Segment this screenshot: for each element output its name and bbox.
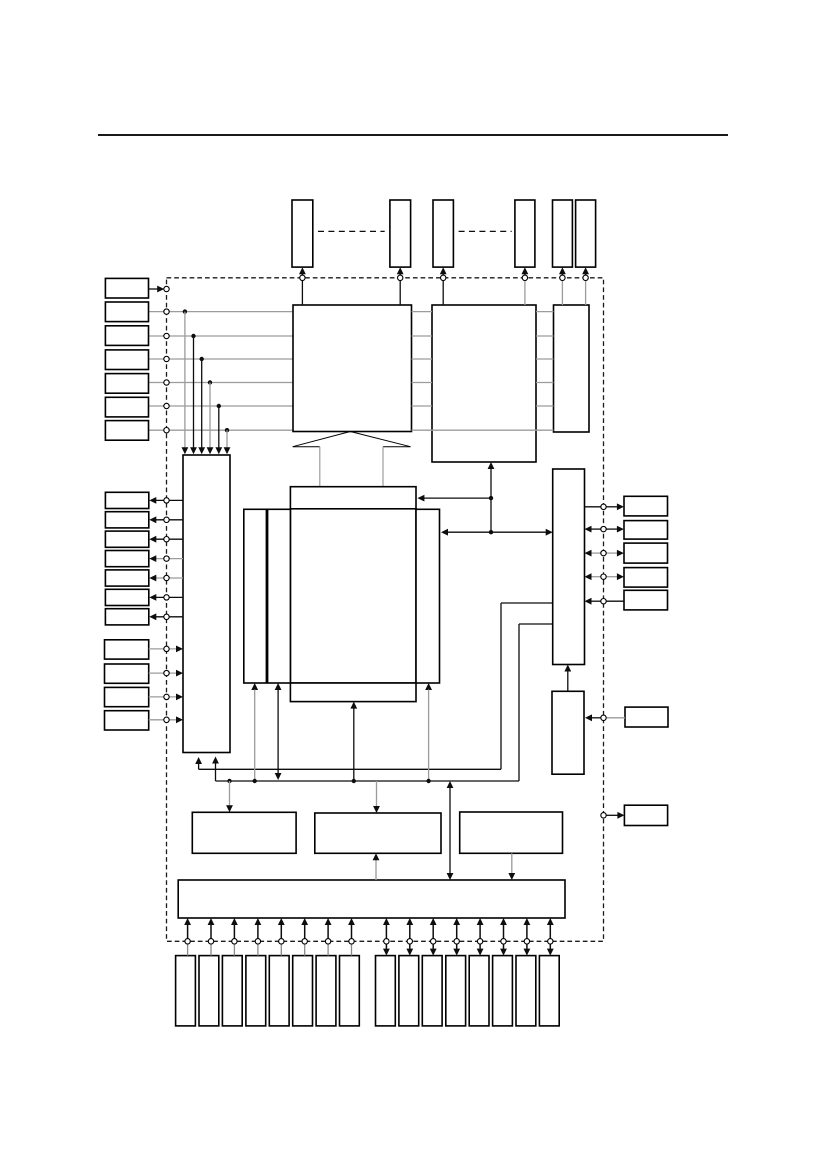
node bottom port left 8 [349, 939, 354, 944]
node bottom port left 5 [279, 939, 284, 944]
junction dot bus L6 [225, 428, 229, 432]
wire M7 arrow [156, 616, 183, 618]
node left port 6 [164, 403, 169, 408]
block B left sidebar [244, 509, 291, 683]
wire N2 arrow [149, 672, 177, 674]
hollow arrow left shaft [319, 447, 321, 487]
wire bus segment A-C row 5 [412, 405, 433, 407]
block N3 [105, 687, 149, 706]
wire bottom pin right 3 [432, 924, 434, 939]
wire bottom pin left 3 [233, 924, 235, 939]
wire P3 drop into block [442, 281, 444, 306]
hollow arrow right shaft [382, 447, 384, 487]
block B header [290, 487, 416, 509]
junction dot 491-532 [489, 530, 493, 534]
block L2 [105, 326, 148, 346]
wire N1 arrow [149, 648, 177, 650]
node right port 4 [601, 574, 606, 579]
hollow arrow left wing [293, 446, 320, 448]
wire bottom pin left 4 [257, 924, 259, 939]
block G1 [315, 813, 441, 853]
block P3 top pin box [433, 200, 453, 267]
wire bottom pin right 5 [479, 924, 481, 939]
wire M3 arrow [156, 538, 183, 540]
node bottom port right 5 [477, 939, 482, 944]
wire R7 row [606, 814, 618, 816]
block M4 [105, 551, 148, 567]
node left port 16 [164, 670, 169, 675]
node bottom port right 1 [384, 939, 389, 944]
wire P3 arrow from border [442, 273, 444, 275]
block L4 [105, 374, 148, 394]
wire G2 to bus [511, 853, 513, 873]
block R1 [624, 496, 668, 516]
block N4 [105, 711, 149, 730]
block bottom pin right 5 [469, 956, 489, 1026]
wire P6 arrow from border [585, 273, 587, 275]
wire L0 to border [149, 288, 159, 290]
block G0 [192, 812, 296, 853]
wire bus line L2 [149, 335, 294, 337]
wire P6 drop into block [585, 281, 587, 306]
wire bottom pin left 7 [327, 924, 329, 939]
junction dot 254-781 [253, 779, 257, 783]
node top port 3 [441, 275, 446, 280]
node bottom port left 6 [302, 939, 307, 944]
wire sidebar left A [251, 683, 258, 690]
junction dot bus L4 [208, 380, 212, 384]
node left port 8 [164, 498, 169, 503]
junction dot bus L5 [217, 404, 221, 408]
hollow arrow left diagonal [293, 432, 351, 447]
node left port 10 [164, 537, 169, 542]
block bottom pin right 8 [539, 956, 559, 1026]
block P4 top pin box [515, 200, 535, 267]
junction dot 353-781 [352, 779, 356, 783]
junction dot bus L3 [200, 357, 204, 361]
block M3 [105, 531, 148, 547]
node right port 5 [601, 599, 606, 604]
block R2 [624, 521, 668, 540]
wire bottom pin right 2 [409, 924, 411, 939]
node top port 4 [522, 275, 527, 280]
wire drop L2 to tall box [193, 336, 195, 449]
wire R6 row [585, 714, 592, 721]
block bottom pin left 1 [176, 956, 196, 1026]
node right port 7 [601, 813, 606, 818]
wire drop L5 to tall box [218, 406, 220, 449]
block B footer [290, 683, 416, 702]
node left port 1 [164, 286, 169, 291]
wire riser x491 [490, 469, 492, 533]
block B right sidebar [416, 509, 440, 683]
header rule [98, 134, 728, 136]
block L6 [105, 421, 148, 441]
junction dot 428-781 [426, 779, 430, 783]
block P6 top pin box [576, 200, 596, 267]
node bottom port right 2 [407, 939, 412, 944]
node left port 18 [164, 717, 169, 722]
wire G1 bottom arrow [375, 860, 377, 880]
wire bus segment C-D row 3 [536, 358, 554, 360]
wire R4 row [585, 573, 592, 580]
block N2 [105, 664, 149, 683]
node left port 12 [164, 575, 169, 580]
wire drop L3 to tall box [201, 359, 203, 449]
node bottom port left 1 [185, 939, 190, 944]
wire bus segment row 6 through C [412, 429, 554, 431]
wire bottom pin left 5 [280, 924, 282, 939]
node bottom port right 6 [501, 939, 506, 944]
block M6 [105, 589, 148, 605]
block B sidebar divider [266, 509, 269, 683]
node bottom port left 2 [208, 939, 213, 944]
block G2 [460, 812, 563, 853]
wire sidebar right riser [425, 683, 432, 690]
block T tall register box [183, 455, 230, 753]
node bottom port right 3 [431, 939, 436, 944]
node top port 5 [560, 275, 565, 280]
block BUS [178, 880, 565, 918]
wire P1 drop into block [301, 281, 303, 306]
junction dot bus L2 [191, 334, 195, 338]
node right port 1 [601, 504, 606, 509]
wire P1 arrow from border [301, 273, 303, 275]
node bottom port right 4 [454, 939, 459, 944]
wire bottom pin right 1 [385, 924, 387, 939]
node left port 5 [164, 380, 169, 385]
block bottom pin right 7 [516, 956, 536, 1026]
block R7 [624, 805, 667, 825]
block E [553, 469, 585, 665]
wire bottom pin left 2 [210, 924, 212, 939]
wire bus segment A-C row 1 [412, 311, 433, 313]
wire sidebar left B double arrow [275, 683, 282, 690]
wire W1 elbow [501, 602, 553, 604]
wire P2 arrow from border [399, 273, 401, 275]
wire bottom pin left 8 [351, 924, 353, 939]
wire M1 arrow [156, 499, 183, 501]
block P5 top pin box [553, 200, 573, 267]
wire R3 row [585, 550, 592, 557]
wire P5 drop into block [561, 281, 563, 306]
block bottom pin left 4 [246, 956, 266, 1026]
block N1 [105, 640, 149, 659]
node right port 2 [601, 526, 606, 531]
wire bottom pin left 1 [187, 924, 189, 939]
wire header arrow [424, 497, 491, 499]
node top port 1 [300, 275, 305, 280]
block C [432, 305, 536, 462]
node left port 7 [164, 428, 169, 433]
block M1 [105, 492, 148, 508]
wire footer riser [350, 702, 357, 709]
wire bus line L3 [149, 358, 294, 360]
wire drop L1 to tall box [184, 312, 186, 449]
junction dot 229-781 [227, 779, 231, 783]
wire R1 row [585, 506, 601, 508]
block bottom pin right 1 [376, 956, 396, 1026]
wire bus segment C-D row 5 [536, 405, 554, 407]
wire feed G0 [229, 781, 231, 806]
block P1 top pin box [292, 200, 313, 267]
wire bottom pin right 6 [503, 924, 505, 939]
block bottom pin left 7 [316, 956, 336, 1026]
block bottom pin left 6 [293, 956, 313, 1026]
block bottom pin left 8 [340, 956, 360, 1026]
wire double arrow x450 [449, 788, 451, 874]
wire bus segment C-D row 2 [536, 335, 554, 337]
wire M5 arrow [156, 577, 183, 579]
wire feed G1 top [376, 781, 378, 807]
wire R5 row [585, 598, 592, 605]
node left port 14 [164, 614, 169, 619]
node bottom port left 3 [232, 939, 237, 944]
block bottom pin right 3 [422, 956, 442, 1026]
block B main [290, 509, 416, 683]
block bottom pin right 6 [493, 956, 513, 1026]
wire N4 arrow [149, 719, 177, 721]
node left port 2 [164, 309, 169, 314]
node left port 9 [164, 517, 169, 522]
block M7 [105, 609, 148, 625]
wire bus segment C-D row 4 [536, 382, 554, 384]
dashed boundary [167, 278, 604, 942]
wire P4 arrow from border [524, 273, 526, 275]
node left port 4 [164, 356, 169, 361]
block P2 top pin box [390, 200, 411, 267]
block bottom pin right 2 [399, 956, 419, 1026]
block D [554, 305, 590, 432]
block R4 [624, 568, 668, 588]
wire bus line L1 [149, 311, 294, 313]
block bottom pin left 5 [269, 956, 289, 1026]
node bottom port left 4 [255, 939, 260, 944]
node left port 15 [164, 646, 169, 651]
node right port 6 [601, 715, 606, 720]
wire R2 row [585, 526, 592, 533]
node top port 2 [398, 275, 403, 280]
wire dashed separator P3-P4 [459, 230, 512, 232]
block R6 [625, 707, 668, 727]
block L0 [105, 278, 148, 298]
wire N3 arrow [149, 696, 177, 698]
block L5 [105, 397, 148, 417]
wire drop L4 to tall box [209, 383, 211, 449]
node left port 11 [164, 556, 169, 561]
node left port 13 [164, 595, 169, 600]
block L3 [105, 350, 148, 370]
wire dashed separator P1-P2 [318, 230, 385, 232]
wire F to E arrow [567, 671, 569, 691]
wire double arrow sidebar-E [448, 531, 547, 533]
block F [552, 691, 584, 774]
node bottom port left 7 [325, 939, 330, 944]
wire bus segment A-C row 2 [412, 335, 433, 337]
wire P2 drop into block [399, 281, 401, 306]
wire bus segment A-C row 3 [412, 358, 433, 360]
node left port 3 [164, 333, 169, 338]
wire M4 arrow [156, 558, 183, 560]
hollow arrow right wing [383, 446, 411, 448]
node right port 3 [601, 550, 606, 555]
wire bus line L5 [149, 405, 294, 407]
junction dot 491-498 [489, 496, 493, 500]
block M2 [105, 512, 148, 528]
node top port 6 [583, 275, 588, 280]
wire M2 arrow [156, 519, 183, 521]
node bottom port right 7 [524, 939, 529, 944]
wire drop L6 to tall box [226, 430, 228, 448]
wire W2 elbow [519, 623, 553, 625]
block bottom pin right 4 [446, 956, 466, 1026]
node bottom port right 8 [548, 939, 553, 944]
wire bus segment A-C row 4 [412, 382, 433, 384]
block R5 [624, 590, 668, 610]
wire bus segment C-D row 1 [536, 311, 554, 313]
node left port 17 [164, 694, 169, 699]
wire bus line L4 [149, 382, 294, 384]
wire M6 arrow [156, 596, 183, 598]
block bottom pin left 3 [222, 956, 242, 1026]
block A [293, 305, 412, 432]
wire bottom pin right 7 [526, 924, 528, 939]
wire bottom pin left 6 [304, 924, 306, 939]
block bottom pin left 2 [199, 956, 219, 1026]
block L1 [105, 302, 148, 322]
wire bottom pin right 4 [456, 924, 458, 939]
hollow arrow right diagonal [350, 432, 410, 447]
wire P4 drop into block [524, 281, 526, 306]
junction dot bus L1 [183, 309, 187, 313]
wire P5 arrow from border [561, 273, 563, 275]
wire bottom pin right 8 [549, 924, 551, 939]
block M5 [105, 570, 148, 586]
wire bus line L6 [149, 429, 294, 431]
block R3 [624, 543, 668, 563]
